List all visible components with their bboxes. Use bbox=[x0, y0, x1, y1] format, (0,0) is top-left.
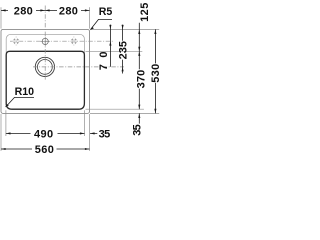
svg-text:35: 35 bbox=[131, 124, 143, 135]
svg-text:35: 35 bbox=[99, 128, 111, 140]
svg-text:R10: R10 bbox=[15, 86, 35, 98]
svg-text:280: 280 bbox=[14, 5, 33, 17]
svg-text:490: 490 bbox=[34, 128, 53, 140]
svg-text:530: 530 bbox=[150, 64, 160, 83]
svg-text:R5: R5 bbox=[99, 6, 113, 18]
svg-text:560: 560 bbox=[35, 144, 54, 156]
svg-text:235: 235 bbox=[117, 41, 129, 59]
svg-text:370: 370 bbox=[135, 70, 147, 89]
svg-text:280: 280 bbox=[59, 5, 78, 17]
svg-text:125: 125 bbox=[139, 3, 151, 22]
